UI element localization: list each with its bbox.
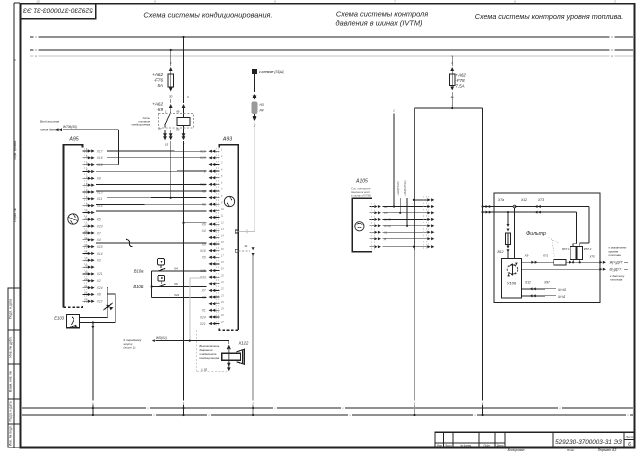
svg-text:А95: А95 <box>68 137 78 143</box>
svg-text:Х8: Х8 <box>96 293 101 297</box>
svg-text:Х122: Х122 <box>238 341 249 346</box>
svg-text:Формат А3: Формат А3 <box>598 448 617 452</box>
svg-text:86: 86 <box>176 110 180 114</box>
svg-text:2: 2 <box>253 124 256 128</box>
svg-text:Лист: Лист <box>625 435 634 439</box>
svg-text:(лист 1): (лист 1) <box>123 346 135 350</box>
svg-text:R57.2: R57.2 <box>584 247 592 251</box>
svg-text:529230-3700003-31 ЭЗ: 529230-3700003-31 ЭЗ <box>555 439 622 446</box>
svg-text:Ж(+)ДУТ: Ж(+)ДУТ <box>609 261 624 265</box>
svg-text:Х75: Х75 <box>588 255 595 259</box>
svg-text:Перв. примен.: Перв. примен. <box>13 140 17 160</box>
svg-text:Подп. и дата: Подп. и дата <box>9 299 13 319</box>
svg-text:21: 21 <box>84 285 88 288</box>
svg-text:Н: Н <box>611 54 613 58</box>
svg-text:Х5: Х5 <box>96 218 101 222</box>
svg-text:А93: А93 <box>222 137 232 143</box>
svg-text:Изм: Изм <box>437 443 442 447</box>
svg-text:+А62(F8/20): +А62(F8/20) <box>396 181 400 196</box>
svg-text:Х4: Х4 <box>173 267 178 271</box>
svg-text:20: 20 <box>84 278 88 281</box>
svg-text:Лист: Лист <box>444 443 453 447</box>
svg-text:кондиционера: кондиционера <box>199 356 219 360</box>
svg-text:2: 2 <box>169 61 172 65</box>
svg-text:Х20: Х20 <box>96 245 103 249</box>
svg-text:Фильтр: Фильтр <box>526 231 546 237</box>
svg-text:В(-)ДУТ: В(-)ДУТ <box>610 267 623 271</box>
svg-text:У106: У106 <box>507 281 517 286</box>
svg-text:Х71: Х71 <box>542 254 549 258</box>
svg-text:529230-3700003-31 ЭЗ: 529230-3700003-31 ЭЗ <box>23 7 93 14</box>
svg-text:23: 23 <box>84 298 88 301</box>
svg-text:Х6: Х6 <box>201 222 206 226</box>
svg-text:Х73: Х73 <box>537 198 544 202</box>
svg-text:5А: 5А <box>157 83 163 88</box>
svg-text:Х4: Х4 <box>96 238 101 242</box>
svg-text:Х2: Х2 <box>96 279 101 283</box>
svg-text:топлива: топлива <box>609 253 622 257</box>
svg-text:Взам. инв. №: Взам. инв. № <box>9 371 13 392</box>
svg-text:Х22: Х22 <box>96 300 103 304</box>
svg-text:-F78: -F78 <box>456 78 466 83</box>
svg-text:к клемме (31)Щ: к клемме (31)Щ <box>259 70 284 74</box>
svg-text:кондиционера: кондиционера <box>132 123 151 127</box>
svg-text:В12: В12 <box>497 250 503 254</box>
svg-text:Х9: Х9 <box>524 254 529 258</box>
svg-text:Инв. № подл.: Инв. № подл. <box>9 425 13 446</box>
svg-text:Х14: Х14 <box>96 252 103 256</box>
svg-text:Подп.: Подп. <box>484 443 491 447</box>
svg-text:Схема системы контроля: Схема системы контроля <box>336 10 428 19</box>
svg-text:Х24: Х24 <box>96 286 103 290</box>
svg-text:15: 15 <box>165 143 169 147</box>
svg-text:W706(30): W706(30) <box>63 125 77 129</box>
svg-text:НЗ: НЗ <box>260 103 264 107</box>
svg-text:+А62: +А62 <box>152 72 163 77</box>
svg-text:Вход высокая: Вход высокая <box>40 120 60 124</box>
svg-text:W5(Х1): W5(Х1) <box>156 336 167 340</box>
svg-text:-К9: -К9 <box>156 107 163 112</box>
svg-text:Х21: Х21 <box>173 293 180 297</box>
svg-text:Х7: Х7 <box>201 289 206 293</box>
svg-text:Подп. и дата: Подп. и дата <box>9 401 13 421</box>
svg-text:7,5А: 7,5А <box>456 84 465 89</box>
svg-text:Н: Н <box>35 54 37 58</box>
svg-text:Х22: Х22 <box>199 275 206 279</box>
svg-text:А105: А105 <box>355 178 368 184</box>
svg-text:Х11: Х11 <box>96 197 103 201</box>
svg-text:10: 10 <box>36 0 40 4</box>
svg-text:Х97: Х97 <box>543 280 550 284</box>
svg-text:Справ. №: Справ. № <box>13 207 17 221</box>
svg-text:Х21: Х21 <box>96 272 103 276</box>
svg-text:Х23: Х23 <box>96 224 103 228</box>
svg-text:30: 30 <box>169 95 173 99</box>
svg-text:Х24: Х24 <box>199 315 206 319</box>
svg-text:Х16: Х16 <box>96 156 103 160</box>
svg-text:Ц(-)Д: Ц(-)Д <box>558 294 566 298</box>
svg-text:22: 22 <box>84 292 88 295</box>
svg-text:Х7: Х7 <box>96 231 101 235</box>
svg-text:Схема системы контроля уровня: Схема системы контроля уровня топлива. <box>475 12 623 21</box>
svg-text:2: 2 <box>450 61 453 65</box>
svg-text:давления в шинах (IVTM): давления в шинах (IVTM) <box>336 19 423 28</box>
svg-text:6: 6 <box>628 442 631 448</box>
svg-text:31: 31 <box>244 244 248 248</box>
svg-text:О: О <box>35 48 37 52</box>
svg-text:Подп.: Подп. <box>567 448 575 452</box>
svg-text:Е103: Е103 <box>54 316 64 321</box>
svg-text:+А62(F28/20): +А62(F28/20) <box>403 180 407 196</box>
svg-text:В10Б: В10Б <box>133 284 143 289</box>
svg-text:+А62: +А62 <box>152 102 163 107</box>
svg-text:Х6: Х6 <box>173 282 178 286</box>
svg-text:Инв. № дубл.: Инв. № дубл. <box>9 336 13 357</box>
svg-text:Х17: Х17 <box>96 149 103 153</box>
svg-text:О: О <box>611 48 613 52</box>
svg-text:1,1Б: 1,1Б <box>201 367 207 371</box>
svg-text:топлива: топлива <box>610 278 623 282</box>
svg-text:Х9: Х9 <box>96 177 101 181</box>
svg-text:R57.1: R57.1 <box>562 247 570 251</box>
svg-text:+А62: +А62 <box>456 73 467 78</box>
svg-text:87: 87 <box>158 127 162 131</box>
svg-text:№ докум.: № докум. <box>460 443 472 447</box>
svg-text:в шинах (IVTM): в шинах (IVTM) <box>351 193 371 197</box>
svg-text:Схема системы кондиционировани: Схема системы кондиционирования. <box>143 11 272 20</box>
svg-text:В10а: В10а <box>134 269 144 274</box>
svg-text:Ц(+)Д: Ц(+)Д <box>558 287 567 291</box>
svg-text:Х4: Х4 <box>201 229 206 233</box>
svg-text:Х12: Х12 <box>520 198 527 202</box>
svg-text:-F76: -F76 <box>154 78 164 83</box>
svg-text:Х1: Х1 <box>201 309 206 313</box>
svg-text:Х21: Х21 <box>199 322 206 326</box>
svg-text:Х5: Х5 <box>201 256 206 260</box>
svg-text:Х3: Х3 <box>96 259 101 263</box>
svg-text:Х16: Х16 <box>199 249 206 253</box>
svg-text:R4: R4 <box>260 109 264 113</box>
svg-text:Х12: Х12 <box>524 280 531 284</box>
svg-text:Копировал: Копировал <box>508 448 525 452</box>
svg-text:Дата: Дата <box>496 443 504 447</box>
svg-text:Х7а: Х7а <box>497 198 504 202</box>
